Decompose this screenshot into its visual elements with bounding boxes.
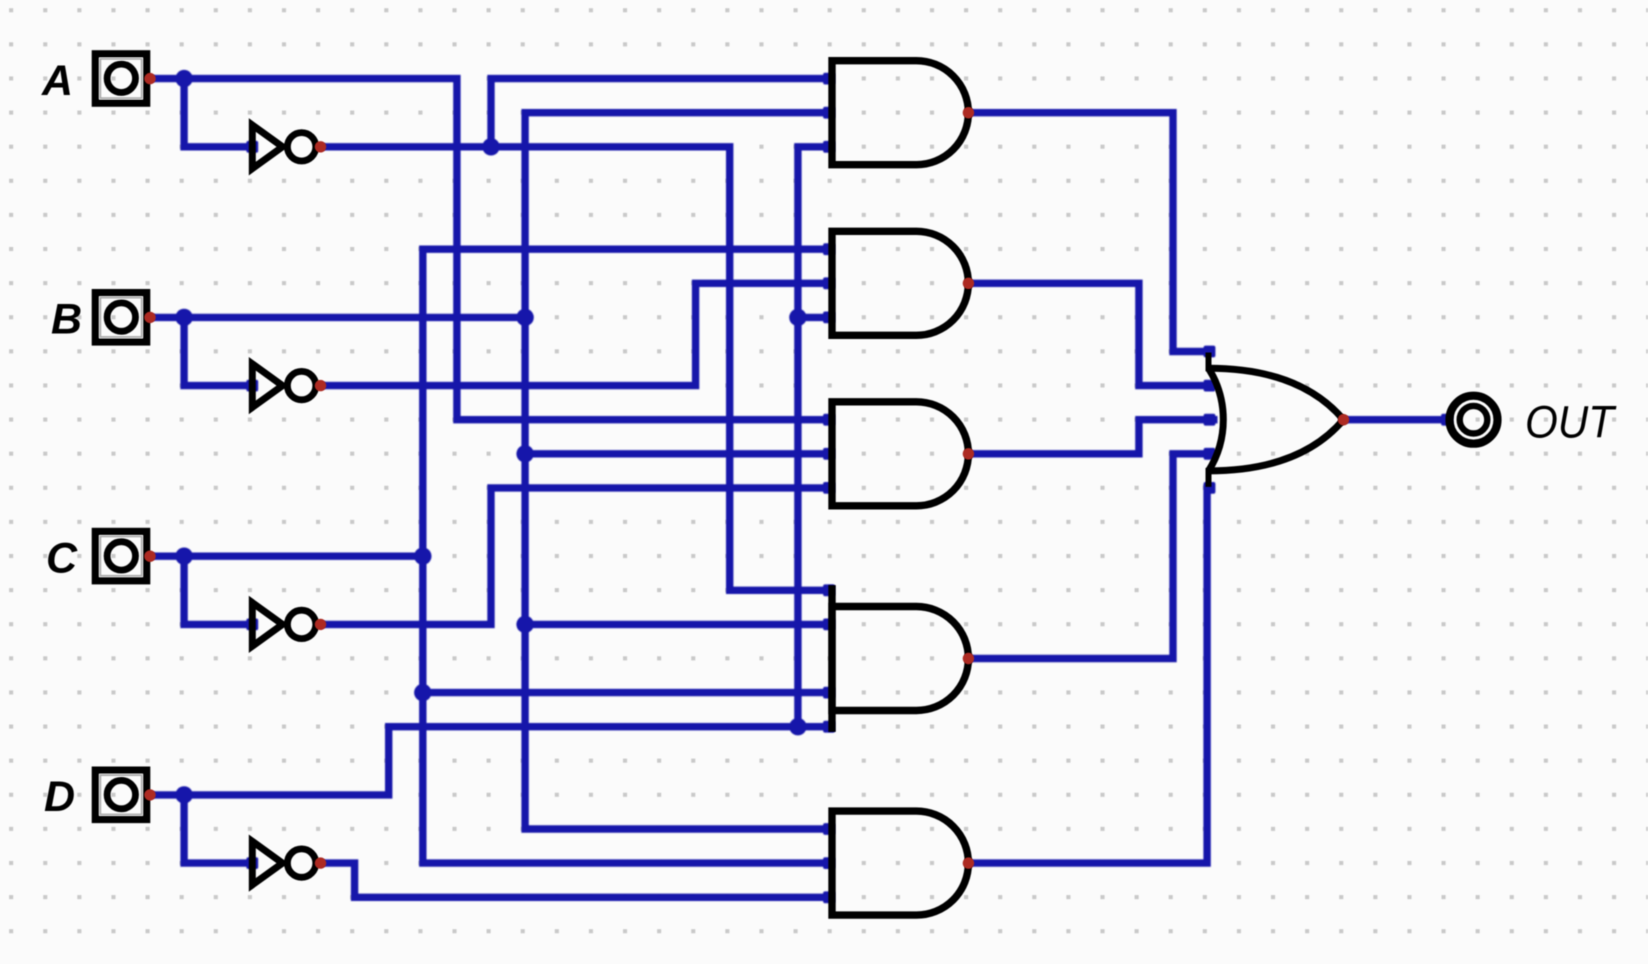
wire AND2 output to OR input 2 bbox=[968, 283, 1217, 385]
pin C output red dot bbox=[144, 551, 155, 562]
wire AND1 output to OR input 1 bbox=[968, 113, 1213, 352]
AND5 in3 node bbox=[823, 891, 835, 903]
junction C col12 bbox=[414, 548, 431, 565]
svg-text:C: C bbox=[46, 534, 78, 582]
AND gate AND3 bbox=[832, 402, 968, 506]
AND gate AND4 bbox=[832, 585, 968, 732]
wire net D: up col23 to AND1 input 3 bbox=[798, 147, 832, 727]
wire net B: pin B to col15 bbox=[150, 314, 525, 321]
junction C split bbox=[175, 548, 192, 565]
NOT1 input node bbox=[246, 141, 258, 153]
OR output red dot bbox=[1338, 414, 1349, 425]
wire net C: branch to AND4 input 3 bbox=[423, 689, 832, 696]
svg-text:D: D bbox=[44, 773, 75, 821]
NOT4 input node bbox=[246, 857, 258, 869]
AND1 in2 node bbox=[823, 107, 835, 119]
wire net NOT-A: to col21 down to AND4 input 1 bbox=[321, 147, 833, 591]
wire net B: branch to AND4 input 2 bbox=[525, 621, 832, 628]
AND gate AND5 bbox=[832, 811, 968, 915]
OR in3 node bbox=[1204, 414, 1216, 426]
wire net D: branch to NOT4 bbox=[184, 795, 252, 863]
AND3 output red dot bbox=[963, 448, 974, 459]
junction C to AND4 bbox=[414, 684, 431, 701]
junction D split bbox=[175, 786, 192, 803]
wire net D: pin D to AND4 input 5 bbox=[150, 727, 832, 795]
input pin B bbox=[95, 293, 146, 342]
wire AND4 output to OR input 4 bbox=[968, 454, 1217, 659]
NOT2 output red dot bbox=[315, 380, 326, 391]
OR in4 node bbox=[1204, 448, 1216, 460]
NOT2 input node bbox=[246, 380, 258, 392]
junction B split bbox=[175, 309, 192, 326]
wire net C: up col12 to AND2 input 1 bbox=[423, 249, 832, 556]
junction A split bbox=[175, 70, 192, 87]
AND2 in3 node bbox=[823, 312, 835, 324]
input pin A bbox=[95, 54, 146, 103]
OR in5 node bbox=[1204, 482, 1216, 494]
OR in1 node bbox=[1204, 346, 1216, 358]
wire AND5 output to OR input 5 bbox=[968, 488, 1213, 863]
wire net B: branch to NOT2 bbox=[184, 317, 252, 385]
junction NOT-A col14 bbox=[482, 138, 499, 155]
junction D row21 bbox=[789, 718, 806, 735]
AND gate AND1 bbox=[832, 61, 968, 165]
wire net A: branch to NOT1 bbox=[184, 79, 252, 147]
wire net NOT-A: branch up col14 to AND1 input 1 bbox=[491, 79, 832, 147]
OR gate U1 bbox=[1209, 353, 1344, 487]
AND2 in1 node bbox=[823, 243, 835, 255]
junction B to AND4 bbox=[516, 616, 533, 633]
AND1 in3 node bbox=[823, 141, 835, 153]
svg-text:B: B bbox=[51, 296, 82, 344]
AND gate AND2 bbox=[832, 231, 968, 335]
wire net C: branch to NOT3 bbox=[184, 556, 252, 624]
wire net B: branch to AND3 input 2 bbox=[525, 450, 832, 457]
NOT4 output red dot bbox=[315, 857, 326, 868]
wire net B: down col15 to AND5 input 1 bbox=[525, 317, 832, 829]
OUT pin node bbox=[1441, 414, 1453, 426]
pin B output red dot bbox=[144, 312, 155, 323]
NOT3 output red dot bbox=[315, 619, 326, 630]
AND4 in1 node bbox=[823, 584, 835, 596]
inverter NOT3 bbox=[252, 603, 315, 647]
AND1 output red dot bbox=[963, 107, 974, 118]
AND1 in1 node bbox=[823, 73, 835, 85]
AND4 in4 node bbox=[823, 721, 835, 733]
wire net D: branch to AND2 input 3 bbox=[798, 314, 832, 321]
inverter NOT2 bbox=[252, 364, 315, 408]
AND2 in2 node bbox=[823, 277, 835, 289]
wire net B: up col15 to AND1 input 2 bbox=[525, 113, 832, 318]
NOT1 output red dot bbox=[315, 141, 326, 152]
AND3 in3 node bbox=[823, 482, 835, 494]
junction D to AND2 bbox=[789, 309, 806, 326]
pin D output red dot bbox=[144, 789, 155, 800]
wire net A: pin A to AND3 input 1 bbox=[150, 79, 832, 420]
input pin C bbox=[95, 531, 146, 580]
AND3 in1 node bbox=[823, 414, 835, 426]
AND5 in1 node bbox=[823, 823, 835, 835]
AND5 output red dot bbox=[963, 857, 974, 868]
wire OR output to OUT pin bbox=[1344, 416, 1448, 423]
output pin OUT bbox=[1450, 396, 1498, 444]
AND4 in2 node bbox=[823, 619, 835, 631]
wire net C: down col12 to AND5 input 2 bbox=[423, 556, 832, 863]
inverter NOT1 bbox=[252, 125, 315, 169]
pin A output red dot bbox=[144, 73, 155, 84]
wire AND3 output to OR input 3 bbox=[968, 420, 1217, 454]
NOT3 input node bbox=[246, 619, 258, 631]
AND5 in2 node bbox=[823, 857, 835, 869]
svg-text:OUT: OUT bbox=[1525, 397, 1617, 448]
AND4 output red dot bbox=[963, 653, 974, 664]
inverter NOT4 bbox=[252, 841, 315, 885]
AND4 in3 node bbox=[823, 687, 835, 699]
wire net NOT-D: to AND5 input 3 bbox=[321, 863, 833, 897]
wire net C: pin C to col12 bbox=[150, 553, 423, 560]
OR in2 node bbox=[1204, 380, 1216, 392]
AND2 output red dot bbox=[963, 278, 974, 289]
wire net NOT-C: to AND3 input 3 bbox=[321, 488, 833, 625]
wire net NOT-B: to AND2 input 2 bbox=[321, 283, 833, 385]
svg-text:A: A bbox=[41, 57, 73, 105]
junction B to AND3 bbox=[516, 445, 533, 462]
AND3 in2 node bbox=[823, 448, 835, 460]
junction B col15 bbox=[516, 309, 533, 326]
input pin D bbox=[95, 770, 146, 819]
